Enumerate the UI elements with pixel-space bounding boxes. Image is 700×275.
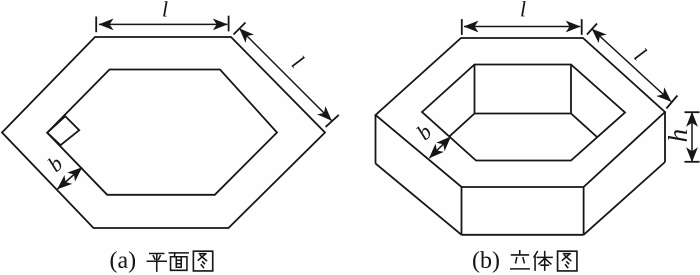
caption char tu2 [558,251,577,271]
dimension l top (plan view) arrow line [99,23,227,25]
3D view inner rim hexagon [422,65,625,161]
dimension l top (3D view) arrow line [464,26,580,28]
label h 3D view [668,130,687,141]
3D view vertical edge at right vertex [664,112,666,162]
caption char li [511,251,529,269]
dimension b arrow (plan view) [58,168,83,190]
label l top 3D view [521,1,525,16]
3D view bottom outline left slant [376,164,462,235]
label l slanted plan view [291,55,305,69]
caption char mian [169,253,188,270]
label b plan view [46,155,63,173]
label l top plan view [163,1,167,16]
3D view bottom outline right slant [584,162,665,235]
3D view outer top-face hexagon [376,38,666,187]
3D view vertical edge at left vertex [375,115,377,164]
caption char ti [534,252,552,270]
right-angle square mark at inner left corner [47,116,79,145]
dimension b arrow (3D view) [429,137,450,158]
label l slanted 3D view [634,47,648,61]
caption char tu [193,251,212,271]
dimension l top (plan view) tick left [95,17,97,33]
3D view hole wall bottom right slant [571,114,597,138]
3D view vertical edge at bottom-left vertex [461,187,463,235]
dimension l top (3D view) tick right [581,19,583,35]
outer hexagon (plan view) [2,37,325,228]
dimension l slanted (3D view) tick upper [587,24,597,35]
inner hexagon (plan view) [47,70,277,195]
dimension l slanted (plan view) tick upper [234,23,246,35]
dimension h (3D view) tick bottom [685,161,700,163]
3D view hole wall vertical edge left [474,65,476,114]
caption (a) [111,251,136,273]
dimension l slanted (plan view) tick lower [326,115,339,127]
dimension h (3D view) tick top [685,111,700,113]
dimension l slanted (plan view) arrow line [240,29,332,121]
caption char ping [147,253,166,271]
dimension l slanted (3D view) arrow line [592,29,671,102]
3D view hole wall vertical edge right [570,65,572,114]
dimension l top (plan view) tick right [228,16,230,32]
3D view vertical edge at bottom-right vertex [583,187,585,235]
dimension l top (3D view) tick left [461,19,463,35]
dimension l slanted (3D view) tick lower [666,96,677,109]
caption (b) [473,251,499,273]
3D view bottom outline bottom edge [462,234,584,236]
label b 3D view [415,123,432,141]
3D view hole wall bottom left slant [449,114,474,137]
dimension h (3D view) arrow line [691,112,693,162]
3D view hole wall bottom back edge [475,113,572,115]
